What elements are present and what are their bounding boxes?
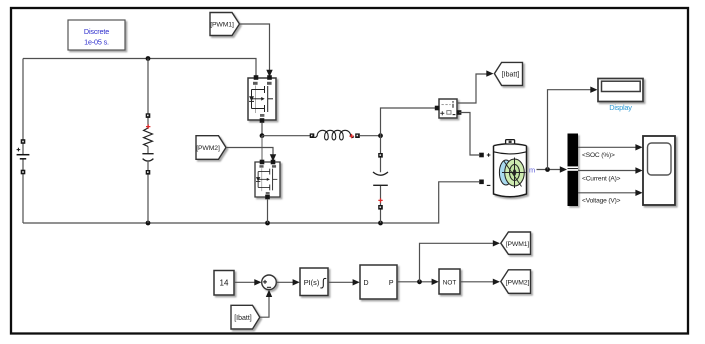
node: C2 to ground rail [378, 221, 383, 226]
wire: bus Current to scope [578, 170, 637, 172]
wire: top rail from V1 to Q1 drain [23, 59, 256, 78]
wire: battery m output to bus selector [537, 169, 562, 171]
PWM generator block [360, 265, 397, 299]
node B: Q1/Q2/L1 junction [260, 133, 265, 138]
wire: node D up to current sensor input [381, 108, 437, 136]
node D: L1 / C2 / sensor junction [378, 133, 383, 138]
wire: PWM2 tag to Q2 gate [226, 148, 273, 156]
svg-text:[PWM1]: [PWM1] [506, 241, 530, 248]
inductor L1 [310, 130, 360, 140]
svg-text:NOT: NOT [443, 279, 457, 286]
node G: P output branch [417, 279, 422, 284]
wire: I1 signal output to Ibatt goto [458, 74, 488, 103]
MOSFET Q1 [248, 75, 276, 123]
wire: PI to PWM generator [328, 281, 354, 283]
current measurement block I1 [435, 99, 462, 118]
svg-text:D: D [364, 280, 369, 287]
capacitor C2 (output filter) [373, 136, 388, 223]
From tag Ibatt (controller) [231, 305, 260, 329]
svg-text:Discrete: Discrete [84, 27, 109, 36]
node: Q2 source to ground rail [265, 221, 270, 226]
svg-text:<SOC (%)>: <SOC (%)> [582, 152, 615, 159]
MOSFET Q2 [255, 160, 280, 200]
wire: sum to PI controller [276, 281, 294, 283]
wire: node B down to Q2 drain [261, 136, 263, 161]
snubber capacitor C1 [142, 154, 153, 161]
svg-text:Display: Display [609, 103, 632, 112]
wire: NOT to PWM2 goto [460, 281, 494, 283]
node A: top rail to snubber branch [146, 56, 151, 61]
From tag PWM2 [196, 136, 226, 160]
wire: 14 to sum [234, 281, 256, 283]
snubber port pins [146, 113, 151, 118]
constant block 14 [214, 271, 234, 296]
bus selector [568, 134, 579, 207]
battery B1 [479, 140, 535, 197]
Goto tag Ibatt [494, 62, 522, 85]
svg-text:[PWM2]: [PWM2] [196, 145, 220, 152]
wire: node F to Display [548, 90, 592, 170]
wire: L1 to node D [360, 135, 381, 137]
svg-text:[Ibatt]: [Ibatt] [502, 72, 520, 79]
svg-text:<Current (A)>: <Current (A)> [582, 175, 621, 182]
PI controller block [300, 268, 328, 296]
wire: Q1 source to node B [261, 123, 263, 136]
svg-text:<Voltage (V)>: <Voltage (V)> [582, 198, 621, 205]
svg-text:14: 14 [220, 279, 229, 288]
From tag PWM1 (top) [210, 13, 240, 36]
wire: P output to NOT input [397, 281, 433, 283]
Display block [598, 79, 643, 113]
svg-text:[Ibatt]: [Ibatt] [234, 315, 252, 322]
svg-text:[PWM1]: [PWM1] [210, 22, 234, 29]
svg-text:[PWM2]: [PWM2] [506, 280, 530, 287]
sum junction S1 [262, 275, 277, 290]
simulation config block "Discrete 1e-05 s." [68, 20, 125, 50]
wire: bus Voltage to scope [578, 192, 637, 194]
node: snubber to ground rail [146, 221, 151, 226]
wire: ground rail (bottom) and battery minus return [23, 182, 479, 223]
wire: PWM1 tag to Q1 gate [240, 24, 270, 71]
wire: snubber branch vertical [147, 59, 149, 224]
Scope block [643, 136, 675, 205]
svg-text:1e-05 s.: 1e-05 s. [84, 37, 109, 46]
snubber current direction mark (red) [146, 124, 150, 128]
wire: node B to L1 [262, 135, 312, 137]
wire: node G to PWM1 goto [420, 243, 494, 281]
svg-text:P: P [389, 280, 394, 287]
DC voltage source V1 [17, 139, 30, 174]
snubber resistor R1 [144, 128, 153, 147]
node F: display tap on m signal [545, 167, 550, 172]
wire: bus SOC to scope [578, 146, 637, 148]
NOT block [439, 269, 460, 294]
Goto tag PWM2 [501, 270, 531, 294]
Goto tag PWM1 [501, 232, 531, 254]
svg-text:m: m [529, 166, 535, 175]
wire: I1 minus terminal to battery plus [459, 113, 479, 156]
wire: Ibatt tag to sum minus input [260, 296, 269, 318]
wire: left rail through V1 [22, 59, 24, 224]
wire: Q2 source to ground rail [267, 200, 269, 224]
svg-text:PI(s): PI(s) [304, 278, 320, 287]
